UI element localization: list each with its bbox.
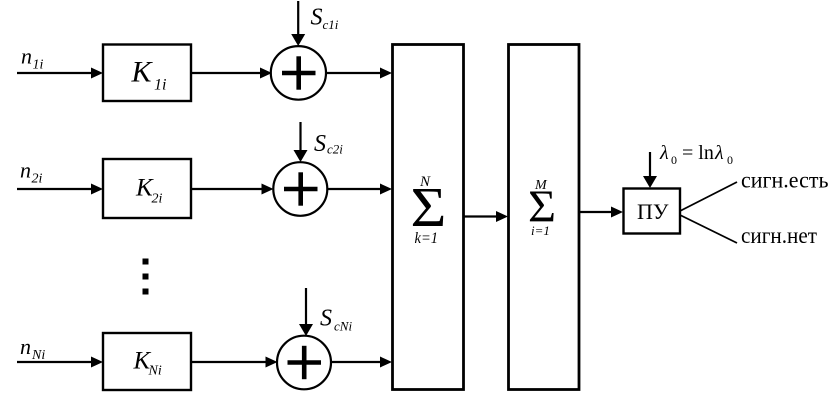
svg-text:c2i: c2i bbox=[327, 142, 343, 157]
svg-text:2i: 2i bbox=[152, 192, 163, 207]
svg-text:k=1: k=1 bbox=[415, 230, 439, 247]
svg-text:1i: 1i bbox=[154, 77, 166, 94]
svg-text:S: S bbox=[311, 5, 323, 31]
svg-text:сигн.есть: сигн.есть bbox=[741, 168, 829, 193]
svg-text:n: n bbox=[20, 334, 31, 359]
svg-text:S: S bbox=[314, 131, 326, 157]
svg-text:i=1: i=1 bbox=[531, 223, 550, 238]
svg-text:0: 0 bbox=[671, 153, 677, 167]
svg-text:λ: λ bbox=[659, 142, 669, 164]
svg-text:сигн.нет: сигн.нет bbox=[741, 223, 817, 248]
svg-text:cNi: cNi bbox=[334, 319, 352, 334]
svg-text:n: n bbox=[20, 158, 31, 183]
svg-text:ПУ: ПУ bbox=[637, 199, 669, 224]
svg-text:2i: 2i bbox=[32, 172, 43, 187]
svg-text:S: S bbox=[320, 306, 332, 332]
svg-text:λ: λ bbox=[714, 142, 724, 164]
svg-text:= ln: = ln bbox=[682, 142, 714, 164]
svg-text:K: K bbox=[131, 56, 154, 89]
svg-text:Ni: Ni bbox=[148, 364, 162, 379]
svg-text:n: n bbox=[21, 44, 32, 69]
svg-text:Ni: Ni bbox=[31, 348, 45, 363]
svg-text:0: 0 bbox=[727, 153, 733, 167]
svg-text:1i: 1i bbox=[33, 58, 44, 73]
svg-text:c1i: c1i bbox=[323, 17, 339, 32]
